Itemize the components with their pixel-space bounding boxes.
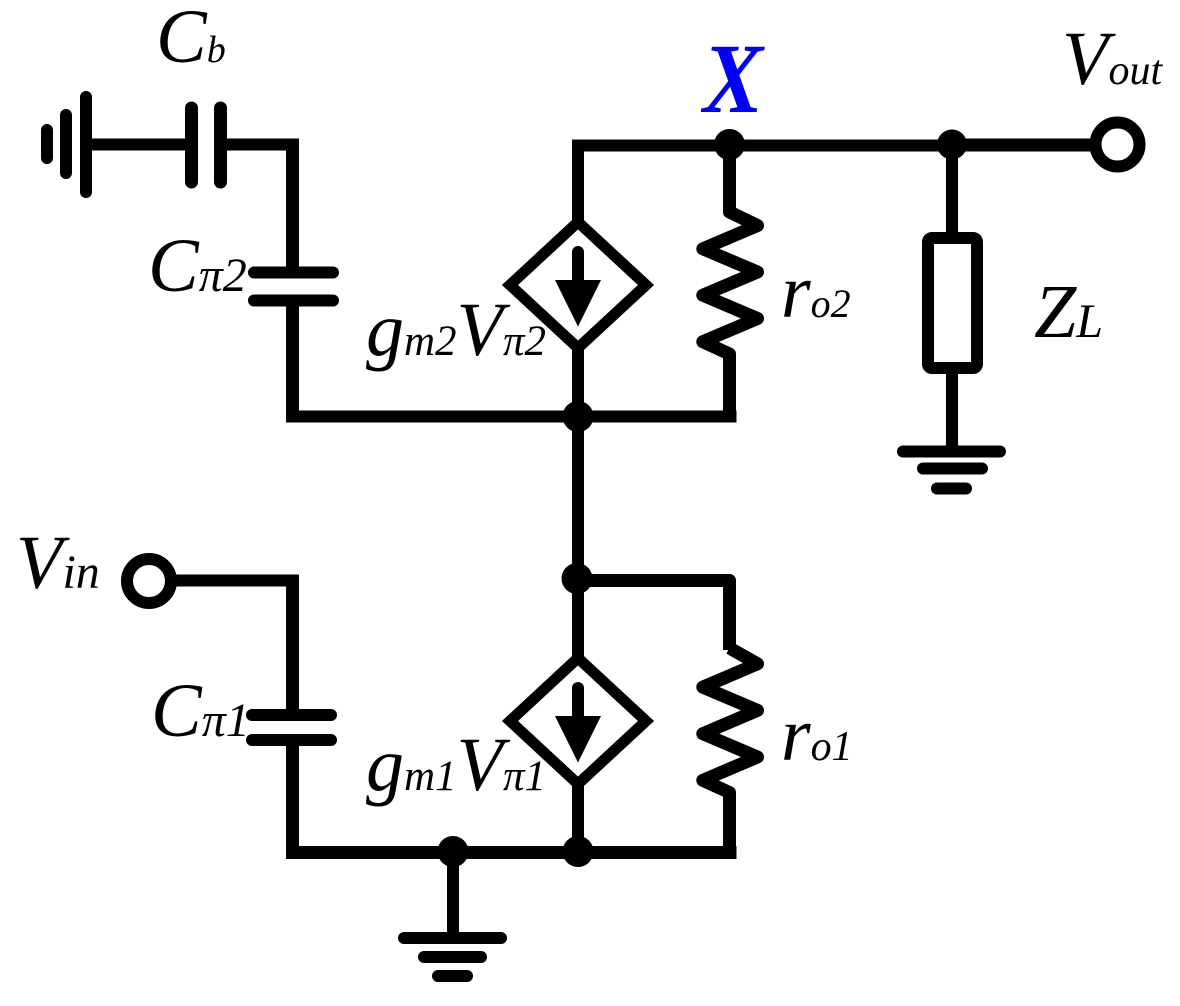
resistor ro1 (703, 648, 758, 853)
top rail wire (572, 140, 1091, 152)
junction dot ground (438, 836, 469, 867)
wire central vertical top rail to diamond1 (572, 146, 584, 226)
junction dot stage2 bottom (563, 401, 594, 432)
wire bottom rail of stage 2 (287, 411, 737, 423)
wire Cpi2 down to bottom-left corner of stage 2 (286, 306, 299, 423)
terminal Vin (open circle) (127, 559, 171, 603)
wire Cb to corner and down to Cpi2 (227, 139, 299, 151)
resistor ro2 (703, 150, 758, 423)
capacitor Cpi1 (252, 715, 331, 740)
ground (left, sideways) (47, 97, 86, 192)
wire ZL to ground (946, 368, 958, 448)
terminal Vout (open circle) (1096, 123, 1140, 167)
wire output junction down to ZL (946, 145, 958, 238)
capacitor Cpi2 (254, 273, 333, 301)
wire junction down to node between stages (572, 417, 584, 581)
wire diamond2 bottom to bottom rail (572, 780, 584, 853)
capacitor Cb (192, 108, 221, 182)
wire ground to Cb (90, 139, 186, 151)
impedance ZL (box) (928, 238, 977, 368)
ground (bottom) (404, 852, 501, 976)
wire Vin to corner and down to Cpi1 (172, 575, 299, 587)
wire diamond1 bottom to junction (572, 345, 584, 417)
bottom rail wire (286, 846, 737, 859)
node X dot (714, 129, 745, 160)
ground (below ZL) (903, 452, 1000, 489)
wire node to ro1 top (572, 581, 730, 651)
junction dot diamond2 bottom (563, 836, 594, 867)
svg-text:X: X (700, 23, 765, 134)
current source U1 gm1Vpi1 (diamond with arrow) (510, 658, 646, 784)
wire node down to diamond2 (572, 581, 584, 663)
output junction dot (937, 130, 967, 160)
current source U2 gm2Vpi2 (diamond with arrow) (510, 222, 646, 348)
wire Cpi1 down to bottom rail (286, 746, 299, 859)
wire to Vout terminal (952, 139, 1092, 151)
node dot between stages (562, 563, 593, 594)
